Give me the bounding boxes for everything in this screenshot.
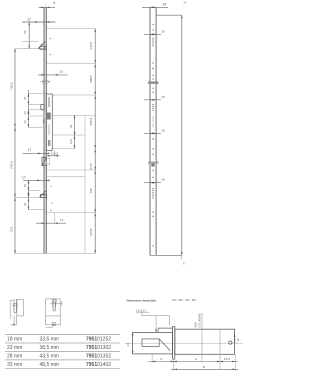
gearbox case (46, 94, 52, 150)
bottom dim line 2 (171, 368, 238, 370)
svg-text:33,5 mm: 33,5 mm (40, 337, 59, 343)
cylinder axis line (201, 313, 203, 362)
inner chain dimension line x=28.5 (28, 180, 30, 209)
inner vertical dimension line x=85 (84, 115, 86, 253)
svg-text:23°- 30°- 35°- 40°: 23°- 30°- 35°- 40° (172, 298, 197, 302)
profile icon A (10, 299, 23, 325)
svg-text:10: 10 (162, 95, 166, 99)
extension vertical bottom (54, 213, 56, 224)
svg-text:10: 10 (162, 178, 166, 182)
centerline cross-section (125, 342, 244, 344)
svg-text:15,5: 15,5 (52, 151, 58, 155)
faceplate edge view left line (43, 7, 45, 253)
marking text column 1 (152, 38, 154, 47)
svg-text:795101352: 795101352 (86, 354, 111, 360)
tiny top tick (184, 1, 187, 4)
svg-text:368,5: 368,5 (89, 75, 93, 83)
faceplate screw holes (152, 24, 154, 247)
spindle hub oval marker (42, 80, 49, 83)
svg-text:730,5: 730,5 (10, 82, 14, 90)
overall dimension line right (181, 15, 183, 255)
keep plate 2 (148, 162, 159, 164)
svg-text:17: 17 (28, 148, 32, 152)
table lines (5, 335, 120, 369)
dim 10 group 1 (144, 33, 161, 35)
svg-text:13: 13 (59, 70, 63, 74)
svg-text:28 mm: 28 mm (7, 354, 22, 360)
leader lines (142, 312, 170, 332)
mid dim column x=74.5 (74, 115, 76, 148)
dimension line bottom overshoot (181, 255, 183, 259)
svg-text:13,5: 13,5 (69, 138, 73, 144)
dim 13 lower (36, 222, 66, 224)
svg-text:273: 273 (10, 227, 14, 232)
roller cam 1 (41, 104, 44, 109)
faceplate cross-section (172, 326, 174, 359)
svg-text:190: 190 (89, 188, 93, 193)
dim 10 group 4 (144, 182, 161, 184)
svg-text:140,5: 140,5 (89, 42, 93, 50)
extension line hook1 bottom (15, 48, 44, 50)
dim 10 group 3 (144, 132, 161, 134)
svg-text:10: 10 (162, 128, 166, 132)
svg-text:A: A (195, 357, 197, 361)
dim 17 (22, 21, 56, 23)
follower hub blob (151, 164, 154, 167)
keep plate 1 (148, 82, 159, 84)
slot mark (152, 116, 154, 119)
svg-text:43,5 mm: 43,5 mm (40, 354, 59, 360)
svg-text:24,5: 24,5 (89, 163, 93, 169)
svg-text:26: 26 (23, 96, 27, 100)
svg-text:43: 43 (23, 120, 27, 124)
lock case body (175, 329, 235, 354)
svg-text:12: 12 (23, 111, 27, 115)
left chain dimension line x=15 (14, 49, 16, 254)
bottom extension verticals (152, 354, 235, 371)
faceplate edge view right line (45, 7, 47, 253)
extension line hook1 top (22, 40, 39, 42)
bottom line right drawing (150, 254, 182, 256)
follower block (142, 339, 159, 347)
profile icon B (46, 299, 62, 327)
dim 6 top (39, 6, 56, 8)
svg-text:17: 17 (27, 17, 31, 21)
svg-text:26: 26 (23, 202, 27, 206)
right chain dimension line x=95.2 (94, 29, 96, 254)
svg-text:15,5: 15,5 (224, 357, 230, 361)
svg-text:CYLINDRE: CYLINDRE (198, 313, 202, 327)
svg-text:6: 6 (183, 262, 185, 266)
svg-text:10: 10 (23, 184, 27, 188)
extension line y=209.6 (29, 209, 45, 211)
mid component (42, 157, 46, 165)
svg-text:6: 6 (161, 357, 163, 361)
svg-text:30: 30 (69, 124, 73, 128)
svg-text:* Dimensions devant bâti: * Dimensions devant bâti (126, 298, 156, 302)
handle notch (43, 120, 44, 123)
dim 15,5 near gearbox bottom (50, 150, 52, 156)
svg-text:795101252: 795101252 (86, 337, 111, 343)
hook 1 (38, 41, 46, 49)
case fixing holes on left rail (50, 38, 53, 211)
svg-text:10: 10 (162, 29, 166, 33)
svg-text:265,5: 265,5 (89, 117, 93, 125)
inner chain dimension line x=28.4 (27, 90, 29, 127)
svg-text:26: 26 (23, 30, 27, 34)
dim line y=180.4 (23, 179, 48, 181)
faceplate right line (155, 7, 157, 255)
svg-text:24: 24 (126, 343, 130, 347)
svg-text:12 à 17: 12 à 17 (136, 308, 147, 312)
svg-text:233,5: 233,5 (89, 228, 93, 236)
gearbox lower blob (48, 140, 50, 146)
internal wall (219, 329, 221, 361)
svg-text:12: 12 (236, 338, 240, 342)
svg-text:24: 24 (163, 2, 167, 6)
svg-text:33 mm: 33 mm (7, 362, 22, 368)
svg-text:B: B (203, 365, 205, 369)
svg-text:23 mm: 23 mm (7, 345, 22, 351)
svg-text:6: 6 (53, 1, 55, 5)
svg-text:734,5: 734,5 (10, 161, 14, 169)
faceplate left line (149, 7, 151, 255)
svg-text:795101302: 795101302 (86, 345, 111, 351)
svg-text:B: B (53, 322, 55, 326)
marking text column 2 (152, 104, 154, 111)
right side extension lines (15, 29, 95, 254)
dim 24 top (142, 6, 168, 8)
marking text column 3 (152, 188, 154, 199)
hook 2 (40, 190, 47, 197)
svg-text:795101402: 795101402 (86, 362, 111, 368)
svg-text:17: 17 (22, 176, 26, 180)
gearbox slots front view (152, 119, 154, 128)
dim 10 group 2 (144, 99, 161, 101)
gearbox slots (48, 97, 50, 107)
gearbox follower dark blob (47, 113, 51, 120)
svg-text:48,5 mm: 48,5 mm (40, 362, 59, 368)
bolt taper diagonal (159, 339, 170, 351)
svg-text:13: 13 (60, 218, 64, 222)
lip block (158, 328, 172, 332)
vertical dim 26 (hook) (28, 22, 30, 49)
bottom dim line 1 (148, 361, 238, 363)
extension lines roller1 (28, 93, 46, 95)
extension hook2 bottom (15, 196, 44, 198)
extension hook2 top (29, 190, 41, 192)
right dim (232, 342, 237, 344)
lock housing body (133, 332, 173, 354)
dim 13 upper (38, 74, 68, 76)
spindle end circle (229, 341, 232, 344)
table text (7, 337, 59, 368)
top connector line (156, 14, 182, 16)
dim 17 hook2 upper (23, 152, 48, 154)
centerline left assembly (44, 4, 46, 255)
svg-text:38,5 mm: 38,5 mm (40, 345, 59, 351)
svg-text:18 mm: 18 mm (7, 337, 22, 343)
